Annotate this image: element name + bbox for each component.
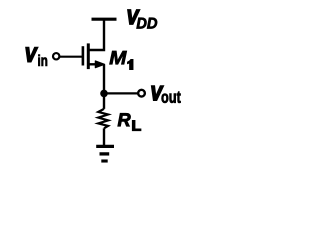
- M1 label M: [110, 51, 127, 64]
- Vout output terminal: [138, 90, 145, 97]
- node output junction: [100, 90, 108, 98]
- wire VDD stem to drain: [90, 19, 105, 50]
- VDD supply bar: [92, 18, 117, 21]
- transistor M1 gate bar: [82, 46, 85, 65]
- wire source down to resistor: [103, 64, 105, 109]
- Vin label in subscript: [38, 55, 47, 66]
- Vout label V: [152, 86, 163, 100]
- Vin input terminal: [53, 53, 59, 59]
- VDD label DD subscript: [137, 18, 157, 29]
- Vin label V: [26, 48, 37, 62]
- transistor M1 source arrowhead: [95, 61, 104, 68]
- wire resistor to ground: [103, 128, 105, 146]
- VDD label V: [128, 10, 139, 24]
- RL label R: [118, 113, 131, 126]
- resistor RL zigzag: [98, 109, 108, 128]
- wire gate lead: [60, 56, 82, 58]
- Vout label out subscript: [162, 92, 181, 103]
- ground bar 3: [101, 159, 107, 162]
- transistor M1 channel bar: [87, 43, 90, 69]
- ground bar 1: [96, 145, 114, 148]
- ground bar 2: [100, 152, 110, 155]
- RL label L subscript: [133, 121, 141, 131]
- wire source lead: [90, 63, 99, 65]
- M1 label 1 subscript: [128, 59, 134, 69]
- wire to output terminal: [104, 92, 138, 94]
